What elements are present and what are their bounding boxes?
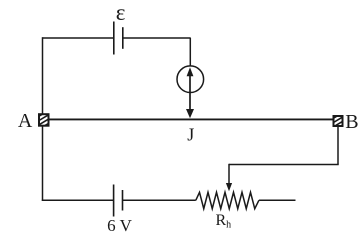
wire: left vertical (top wire down to terminal A) (42, 37, 44, 114)
wire: horizontal (B branch to rheostat wiper) (229, 164, 339, 166)
svg-text:A: A (18, 110, 33, 132)
wire: top horizontal right segment (cell E to galvanometer branch) (123, 37, 191, 39)
galvanometer G (circle) (177, 66, 204, 93)
terminal A (hatched block) (36, 108, 52, 135)
wire: left vertical (terminal A down to bottom wire) (42, 126, 44, 201)
svg-text:ε: ε (116, 0, 126, 25)
rheostat wiper arrow (226, 164, 232, 192)
svg-text:6 V: 6 V (107, 216, 132, 235)
wire: bottom horizontal right segment (rheostat to open end) (259, 199, 296, 201)
svg-text:J: J (187, 125, 194, 145)
rheostat Rh (zigzag element) (196, 192, 259, 208)
cell E (emf) long plate (113, 22, 115, 55)
wire: galvanometer branch vertical (top wire to galvanometer) (189, 38, 191, 67)
cell E (emf) short plate (122, 27, 124, 49)
battery 6V short plate (122, 190, 124, 211)
jockey double arrow (galvanometer to point J) (186, 67, 194, 118)
wire: bottom horizontal middle segment (battery to rheostat) (123, 199, 196, 201)
svg-text:B: B (345, 111, 358, 133)
wire: bottom horizontal left segment (left corner to battery) (42, 199, 114, 201)
wire: right vertical (terminal B down) (337, 127, 339, 165)
wire: top horizontal left segment (left corner to cell E) (43, 37, 114, 39)
svg-text:Rh: Rh (216, 212, 232, 231)
potentiometer wire A-B (49, 118, 334, 120)
terminal B (hatched block) (331, 110, 347, 132)
battery 6V long plate (113, 185, 115, 217)
